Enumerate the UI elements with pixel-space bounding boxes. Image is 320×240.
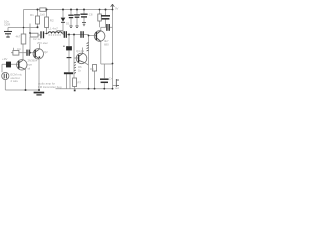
wire Q2 emitter long bbox=[38, 59, 40, 90]
wire collector line y27 bbox=[101, 26, 107, 28]
wire mic base line bbox=[2, 63, 19, 65]
capacitor C3b electrolytic bbox=[74, 15, 80, 17]
wire emitter corner to V112 bbox=[101, 63, 113, 65]
svg-text:Q4 2N: Q4 2N bbox=[76, 49, 84, 53]
wire drop to R3 bbox=[23, 28, 25, 35]
svg-text:1k0: 1k0 bbox=[40, 13, 45, 17]
wire V88 bias chain bbox=[88, 36, 90, 89]
svg-text:C+: C+ bbox=[109, 77, 113, 81]
capacitor C3a electrolytic top bbox=[68, 15, 73, 17]
svg-text:sil: sil bbox=[28, 67, 31, 71]
capacitor C12 bold blob on mic line bbox=[6, 62, 11, 68]
capacitor C9 electrolytic big bbox=[101, 16, 110, 19]
svg-text:R2: R2 bbox=[50, 19, 54, 23]
svg-text:FM transmitter bug: FM transmitter bug bbox=[38, 85, 62, 89]
wire C9 stub bbox=[105, 10, 107, 16]
svg-text:R1: R1 bbox=[30, 13, 34, 17]
wire output corner bbox=[113, 85, 117, 87]
wire Q2 collector bbox=[39, 44, 41, 49]
wire V112 vertical bbox=[112, 10, 114, 28]
svg-text:R9: R9 bbox=[90, 67, 94, 71]
wire V30 vertical bbox=[29, 24, 31, 34]
wire Q1 emitter down bbox=[25, 69, 27, 90]
inductor L1 bbox=[48, 32, 62, 34]
svg-text:+9V: +9V bbox=[2, 57, 7, 61]
ground under C3a bbox=[69, 26, 72, 28]
wire R8 stubs top right bbox=[99, 10, 101, 15]
resistor R6 ticks on V74 bbox=[74, 62, 76, 73]
capacitor C7 out bold bbox=[107, 24, 109, 31]
wire bar legs to rail bbox=[66, 74, 68, 89]
wire R2 bottom to node bbox=[46, 28, 48, 34]
capacitor C5 series bold bbox=[64, 31, 66, 38]
wire Q3 emitter bbox=[98, 39, 101, 42]
resistor R8 top right bbox=[98, 14, 102, 21]
microphone MIC1 bbox=[2, 72, 9, 79]
wire V74 lower bbox=[73, 58, 75, 76]
svg-text:25V elec: 25V elec bbox=[37, 41, 48, 45]
svg-text:D1: D1 bbox=[66, 22, 70, 26]
wire diode stub bbox=[62, 10, 64, 18]
wire V69 down bbox=[68, 35, 70, 47]
capacitor C10 electrolytic bottom right bbox=[100, 79, 109, 82]
wire V74 down bbox=[73, 35, 75, 59]
wire top cap stubs bbox=[70, 10, 72, 15]
wire R1 stubs bbox=[37, 10, 39, 17]
transistor Q1 bbox=[17, 60, 27, 70]
svg-text:C8: C8 bbox=[89, 13, 93, 17]
wire C10 stubs bbox=[103, 64, 105, 78]
wire left drop from rail bbox=[23, 10, 25, 28]
transistor Q4 bbox=[76, 53, 87, 64]
resistor R3 bbox=[21, 34, 26, 44]
supply arrow top right bbox=[111, 4, 115, 9]
wire Q3 collector up bbox=[98, 31, 101, 34]
svg-text:9V: 9V bbox=[115, 7, 119, 11]
wire Q4 collector bbox=[82, 48, 84, 54]
ground under C3b bbox=[75, 26, 78, 28]
capacitor C2 coupling bold bbox=[41, 31, 44, 38]
wire base lead Q3 bbox=[89, 35, 97, 37]
wire mic corner bbox=[1, 64, 3, 72]
wire mic down bbox=[4, 80, 6, 90]
wire input cap stems bbox=[7, 28, 9, 32]
resistor R9 box bbox=[92, 65, 96, 71]
capacitor C4 bold before Q2 bbox=[27, 50, 29, 56]
wire R3 to Q1 collector bbox=[22, 44, 24, 60]
svg-text:CER: CER bbox=[4, 23, 11, 27]
resistor R7 bottom mid bbox=[73, 78, 77, 87]
wire inductor to cap C5 bbox=[62, 34, 64, 35]
svg-text:4k7: 4k7 bbox=[16, 35, 21, 39]
wire R2 stub top bbox=[46, 10, 48, 18]
wire input line y27 bbox=[8, 27, 38, 29]
ground under C8 bbox=[82, 23, 86, 26]
text labels (value annotations) bbox=[2, 7, 119, 91]
wire bottom right rail bbox=[56, 88, 113, 90]
wire signal mid y34.5 bbox=[67, 34, 89, 36]
resistor R10 ticks on V88 bbox=[87, 43, 89, 51]
wire Q4 base lead bbox=[74, 57, 79, 59]
wire Q4 emitter to V88 bbox=[84, 62, 88, 65]
wire top rail V+ bbox=[24, 9, 114, 11]
svg-text:680: 680 bbox=[104, 43, 109, 47]
wire +9V feed bbox=[13, 48, 15, 51]
capacitor C1 input plates bbox=[4, 32, 12, 38]
plate under C11 bbox=[67, 57, 72, 59]
plus mark at C11 bbox=[63, 46, 65, 47]
svg-text:out: out bbox=[115, 86, 119, 90]
resistor R1 bbox=[36, 16, 40, 24]
resistor R4 horizontal bbox=[30, 33, 38, 37]
svg-text:L1 4m7: L1 4m7 bbox=[49, 27, 59, 31]
resistor R rail bbox=[40, 8, 46, 11]
bold bar plate lower mid bbox=[64, 72, 73, 74]
diode D1 bbox=[61, 18, 66, 22]
capacitor C8 electrolytic wide bbox=[80, 14, 87, 17]
ground tick under R7 bbox=[74, 90, 76, 92]
wire R9 vertical bbox=[94, 71, 96, 89]
resistor R2 bbox=[45, 17, 49, 28]
svg-text:2 wire: 2 wire bbox=[11, 79, 19, 83]
resistor R5 +9V box bbox=[13, 50, 19, 55]
svg-text:Q2: Q2 bbox=[44, 50, 48, 54]
transistor Q2 bbox=[33, 49, 43, 59]
wire R7 legs bbox=[73, 76, 75, 78]
svg-text:R7: R7 bbox=[78, 81, 82, 85]
capacitor C11 bold blob on V69 bbox=[66, 46, 72, 50]
wire stub left of diode bbox=[57, 30, 64, 32]
junction dots bbox=[23, 9, 114, 92]
svg-text:C4: C4 bbox=[17, 47, 21, 51]
wire signal y34 segment bbox=[38, 34, 40, 36]
wire bottom left rail bbox=[5, 89, 39, 91]
transistor Q3 bbox=[94, 31, 105, 42]
output jack J1 bbox=[116, 79, 119, 87]
capacitor C6 series bold bbox=[81, 31, 83, 38]
ground main bbox=[34, 92, 45, 96]
